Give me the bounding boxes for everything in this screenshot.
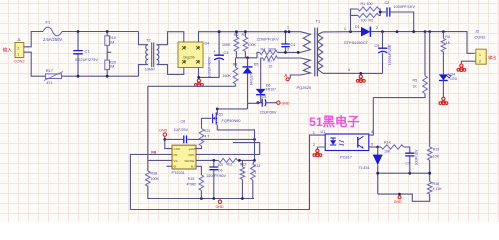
wire bottom rail R17 to T2 [62, 75, 139, 77]
svg-text:R4: R4 [445, 35, 450, 39]
resistor R13 1 [253, 160, 255, 164]
svg-text:C6: C6 [218, 169, 223, 173]
svg-text:4.11K: 4.11K [433, 187, 443, 191]
junction divider tap [428, 30, 431, 33]
optocoupler pin4 wire to 1K [369, 98, 374, 136]
svg-text:GND: GND [216, 205, 224, 209]
junction C7 bottom [408, 172, 411, 175]
svg-text:Q1: Q1 [219, 113, 224, 117]
wire bridge minus pin down [199, 60, 220, 78]
varistor R17 [46, 74, 62, 79]
svg-text:4*0R2: 4*0R2 [187, 183, 197, 187]
capacitor C9 1000UF/25V [381, 30, 384, 33]
svg-text:3: 3 [371, 143, 373, 147]
junction R4 LED tap [442, 30, 445, 33]
svg-text:C4: C4 [290, 43, 295, 47]
transformer T2 left winding [146, 45, 148, 65]
svg-text:51黑电子: 51黑电子 [309, 114, 360, 129]
wire 160K top to clamp node [235, 58, 237, 67]
svg-text:22UF/50V: 22UF/50V [260, 111, 277, 115]
svg-text:1: 1 [17, 53, 19, 57]
junction source node [253, 138, 256, 141]
junction R20 bottom [106, 75, 109, 78]
svg-text:1: 1 [287, 25, 289, 29]
node clamp wire [236, 52, 260, 57]
svg-text:4: 4 [371, 130, 373, 134]
resistor R12 1 [241, 160, 243, 166]
wire Q1 drain [216, 109, 218, 115]
svg-text:F1: F1 [46, 20, 51, 25]
junction C1 bottom [77, 75, 80, 78]
junction TL431 ref [376, 172, 379, 175]
junction C1 top [77, 30, 80, 33]
wire J2 pin2 to ground [461, 61, 475, 64]
capacitor C8 [184, 136, 187, 144]
resistor R18 100K [146, 171, 151, 186]
svg-text:1000UF/25V: 1000UF/25V [388, 44, 392, 65]
svg-text:C7: C7 [405, 162, 410, 166]
wire bridge plus output to top rail [199, 32, 301, 42]
junction 1K opto tap [424, 30, 427, 33]
wire drain node [217, 108, 247, 110]
svg-text:A: A [284, 73, 287, 78]
wire FB loop [130, 135, 325, 209]
junction snubber right [379, 11, 382, 14]
svg-text:PC817: PC817 [340, 155, 352, 160]
svg-text:2200PF/50V: 2200PF/50V [207, 174, 227, 178]
transformer T2 left lead [139, 32, 149, 45]
wire IC gate pin to R21 [195, 146, 202, 149]
svg-text:STPS4160CT: STPS4160CT [344, 40, 369, 45]
junction dot 397 [396, 30, 399, 33]
svg-text:100: 100 [367, 2, 373, 6]
svg-text:J2: J2 [475, 28, 479, 33]
svg-text:10K: 10K [433, 154, 440, 158]
resistor R19 [199, 175, 204, 190]
earth symbol J2 ground [457, 64, 466, 71]
earth symbol secondary [356, 75, 365, 82]
earth symbol LED ground [439, 97, 448, 104]
diode D5 [247, 58, 249, 67]
junction T1 pin2 [297, 51, 300, 54]
wire IC BI pin stub [167, 165, 173, 167]
svg-text:FR107: FR107 [249, 74, 253, 85]
resistor R3 [244, 32, 246, 37]
svg-text:R2: R2 [369, 19, 374, 23]
junction C4 bottom [284, 51, 287, 54]
snubber return wire [390, 12, 414, 32]
svg-text:FQP50N60: FQP50N60 [222, 119, 241, 123]
svg-text:4: 4 [348, 68, 350, 72]
transformer T2 left bottom lead [139, 65, 149, 77]
svg-text:2.5A/250V: 2.5A/250V [43, 37, 62, 42]
resistor R2b 100 snubber lower [358, 13, 379, 17]
svg-text:2: 2 [17, 46, 19, 50]
wire R10 to R20 with stub [106, 45, 108, 60]
svg-text:R5: R5 [413, 79, 418, 83]
svg-text:1000PF/1KV: 1000PF/1KV [394, 5, 416, 9]
capacitor C4 2200PF/1KV [285, 32, 287, 44]
svg-text:输入: 输入 [3, 46, 13, 53]
resistor R1 100 snubber upper [358, 7, 379, 11]
wire VS column down to R18 [147, 86, 149, 171]
junction divider mid [428, 172, 431, 175]
svg-text:160K: 160K [223, 74, 232, 78]
wire D6 to C5 node [258, 95, 261, 103]
svg-text:R4: R4 [261, 47, 266, 51]
capacitor C8 1UF/25V wire [165, 138, 184, 140]
svg-text:R17: R17 [46, 68, 54, 73]
svg-text:R18: R18 [151, 171, 158, 175]
svg-text:1: 1 [254, 171, 256, 175]
svg-text:R3: R3 [242, 33, 247, 37]
svg-text:PQ2620: PQ2620 [297, 85, 312, 90]
svg-text:C1: C1 [85, 49, 91, 54]
resistor R4 1K LED [442, 32, 444, 39]
LED D4 [439, 74, 448, 80]
wire Q1 source [217, 125, 254, 161]
capacitor C2 1000PF/1KV [387, 7, 390, 16]
transformer T2 core [152, 43, 154, 68]
wire aux winding bottom to A flag [289, 75, 300, 78]
svg-text:R15: R15 [433, 147, 440, 151]
svg-text:R1: R1 [361, 2, 366, 6]
svg-text:10MH: 10MH [145, 67, 155, 71]
wire secondary top to D1 [323, 31, 361, 33]
svg-text:10UF/16V: 10UF/16V [415, 149, 419, 165]
wire R21 to gate [202, 118, 212, 128]
wire R14 to C7 [404, 147, 410, 153]
resistor 10 ohm aux [263, 56, 278, 61]
wire IC BJ pin to R19 [196, 166, 201, 175]
power flag GND after C5 [277, 101, 280, 104]
svg-text:D4: D4 [451, 73, 456, 77]
svg-text:VDD: VDD [188, 153, 195, 157]
junction C5 node [257, 101, 260, 104]
resistor R16 4.11K [427, 182, 432, 195]
svg-text:gate: gate [189, 147, 195, 151]
junction IC gnd node [163, 138, 166, 141]
junction R10 top [106, 30, 109, 33]
junction C3 top [218, 30, 221, 33]
svg-text:C3: C3 [224, 51, 229, 55]
svg-text:2: 2 [313, 143, 315, 147]
svg-text:1K: 1K [413, 85, 418, 89]
svg-text:R13: R13 [254, 164, 260, 168]
junction snubber tap [349, 30, 352, 33]
capacitor C1 branch wire [77, 32, 79, 51]
junction sense right [253, 159, 256, 162]
svg-text:C9: C9 [375, 44, 380, 48]
svg-text:D1: D1 [355, 25, 360, 29]
diode D6 [260, 83, 262, 89]
optocoupler LED [330, 138, 335, 140]
snubber right join wire [379, 9, 380, 15]
wire output rail [370, 32, 474, 54]
junction C6 tap [212, 159, 215, 162]
transformer T1 core [315, 28, 318, 77]
svg-text:2: 2 [287, 48, 289, 52]
junction clamp node [246, 56, 249, 59]
power flag GND secondary [398, 193, 401, 196]
svg-text:BJ: BJ [191, 165, 195, 169]
svg-text:471: 471 [47, 81, 53, 85]
wire 10ohm left to D6 [261, 58, 263, 83]
startup 160K line from earth area [148, 85, 236, 87]
wire LED to ground [442, 81, 444, 98]
resistor R21 4.7 [199, 129, 204, 147]
svg-text:1M: 1M [109, 65, 114, 69]
wire J1 pin1 to bottom rail [24, 52, 46, 76]
capacitor C5 22UF/50V [258, 102, 262, 104]
transformer T2 right bottom lead to bridge [157, 65, 184, 75]
junction snubber return [412, 30, 415, 33]
IC U2 PT2201 [172, 145, 196, 169]
svg-text:R2: R2 [234, 33, 239, 37]
transformer T1 secondary winding [318, 32, 323, 73]
svg-text:100K: 100K [222, 43, 231, 47]
junction secondary ground [359, 72, 362, 75]
capacitor C3 [214, 54, 224, 56]
junction TL431 cathode [376, 146, 379, 149]
wire IC SENSE line [196, 159, 218, 161]
svg-text:T2: T2 [146, 38, 151, 43]
capacitor C3 top lead [218, 32, 220, 55]
resistor R20 [105, 60, 110, 70]
svg-text:FR107: FR107 [266, 88, 276, 92]
svg-text:C2: C2 [385, 1, 390, 5]
resistor R11 100 [218, 158, 237, 162]
svg-text:+C5: +C5 [260, 95, 267, 99]
wire divider from rail [429, 32, 431, 147]
diode D1 STPS4160CT [361, 27, 370, 37]
svg-text:PT2201: PT2201 [172, 171, 185, 175]
svg-text:1M: 1M [109, 40, 114, 44]
wire IC VDD line [196, 143, 260, 155]
svg-text:CON2: CON2 [14, 58, 26, 63]
junction bottom rail R12 [241, 197, 244, 200]
svg-text:10K: 10K [384, 150, 391, 154]
svg-text:SENSE: SENSE [184, 159, 194, 163]
svg-text:FB: FB [174, 153, 178, 157]
svg-text:GND: GND [282, 102, 290, 106]
svg-text:2: 2 [479, 59, 481, 63]
resistor R4 200K [260, 50, 278, 55]
transformer T2 right winding [157, 45, 159, 65]
junction R2 top [235, 30, 238, 33]
resistor R5 1K opto feed [424, 32, 426, 76]
fuse F1 [43, 27, 62, 36]
wire R18 to bottom rail [148, 186, 254, 199]
svg-text:100: 100 [218, 163, 224, 167]
svg-text:1UF/25V: 1UF/25V [174, 128, 189, 132]
junction bottom rail C6 [212, 197, 215, 200]
transformer T1 aux winding [301, 58, 311, 75]
TL431 shunt regulator [377, 147, 379, 155]
resistor 160K startup [235, 84, 237, 86]
optocoupler pin3 wire [369, 146, 378, 148]
wire top rail fuse to T2 [62, 31, 139, 33]
capacitor C6 2200PF/50V [213, 160, 215, 166]
svg-text:D5: D5 [254, 62, 259, 66]
svg-text:输出: 输出 [488, 54, 496, 60]
svg-text:0.22UF/275V: 0.22UF/275V [75, 57, 98, 62]
svg-text:CON2: CON2 [475, 34, 486, 39]
junction bottom rail R19 [200, 197, 203, 200]
svg-text:R11: R11 [227, 162, 233, 166]
svg-text:R19: R19 [188, 177, 194, 181]
svg-text:GND: GND [174, 147, 182, 151]
svg-text:R14: R14 [384, 141, 391, 145]
svg-text:LED: LED [451, 77, 458, 81]
wire R16 to secondary ground bus [378, 194, 430, 201]
svg-text:bkg206: bkg206 [184, 55, 195, 59]
wire IC VS pin [148, 159, 172, 161]
svg-text:10: 10 [269, 65, 273, 69]
capacitor C7 [405, 153, 414, 156]
svg-text:100: 100 [361, 19, 367, 23]
svg-text:2: 2 [376, 26, 378, 30]
svg-text:200K: 200K [268, 47, 277, 51]
connector J1 (CON2 input) [15, 43, 24, 58]
wire IC GND pin up [165, 139, 172, 148]
wire R4 to LED [442, 52, 444, 75]
resistor R10 [106, 32, 108, 36]
svg-text:1: 1 [479, 53, 481, 57]
junction T1 pin1 [288, 30, 291, 33]
junction R11 right [238, 159, 241, 162]
wire J1 pin2 to top rail [24, 32, 43, 47]
earth symbol primary [195, 79, 204, 86]
earth symbol opto pin2 [313, 149, 322, 157]
svg-text:D4: D4 [205, 42, 210, 46]
svg-text:100K: 100K [151, 177, 160, 181]
junction R3 top [244, 30, 247, 33]
optocoupler U1 PC817 [325, 134, 369, 151]
optocoupler transistor [357, 137, 359, 148]
svg-text:T1: T1 [316, 19, 321, 24]
power flag GND bottom rail [218, 200, 221, 203]
svg-text:R21: R21 [204, 129, 211, 133]
wire secondary bottom return [323, 72, 383, 74]
MOSFET Q1 FQP50N60 [213, 112, 218, 124]
svg-text:2200PF/1KV: 2200PF/1KV [257, 37, 279, 42]
wire 10ohm to aux winding top [277, 57, 300, 59]
svg-text:100UF/400V: 100UF/400V [208, 56, 212, 77]
svg-text:100K: 100K [248, 43, 257, 47]
svg-text:1: 1 [243, 171, 245, 175]
resistor R14 10K [378, 146, 381, 148]
svg-text:1K: 1K [446, 41, 451, 45]
optocoupler pin2 wire [317, 147, 325, 150]
svg-text:R12: R12 [240, 162, 246, 166]
bridge rectifier D3 bkg206 [178, 42, 203, 68]
wire 1K to opto anode [373, 94, 425, 98]
svg-text:VS: VS [174, 159, 178, 163]
capacitor C1 [73, 51, 83, 54]
wire ref line to divider mid [378, 172, 430, 174]
junction drain [216, 108, 219, 111]
junction bridge minus [197, 76, 200, 79]
svg-text:TL431: TL431 [359, 166, 370, 170]
connector J2 output [476, 49, 486, 64]
svg-text:GND: GND [159, 129, 167, 133]
svg-text:BI: BI [174, 165, 177, 169]
resistor R2 [235, 32, 237, 37]
junction C4 top [284, 30, 287, 33]
svg-text:R16: R16 [433, 182, 440, 186]
transformer T2 right top lead to bridge [157, 32, 184, 45]
wire D5 anode down to drain node [247, 74, 249, 110]
svg-text:GND: GND [394, 200, 402, 204]
svg-text:1: 1 [344, 27, 346, 31]
resistor R15 10K [427, 147, 432, 160]
svg-text:4.7: 4.7 [204, 134, 209, 138]
snubber tap wire [351, 9, 358, 32]
svg-text:1: 1 [313, 131, 315, 135]
svg-text:FB: FB [151, 151, 156, 155]
svg-text:R?: R? [268, 60, 272, 64]
svg-text:C8: C8 [181, 120, 186, 124]
wire TL431 anode [377, 165, 379, 194]
svg-text:U1: U1 [321, 130, 326, 134]
